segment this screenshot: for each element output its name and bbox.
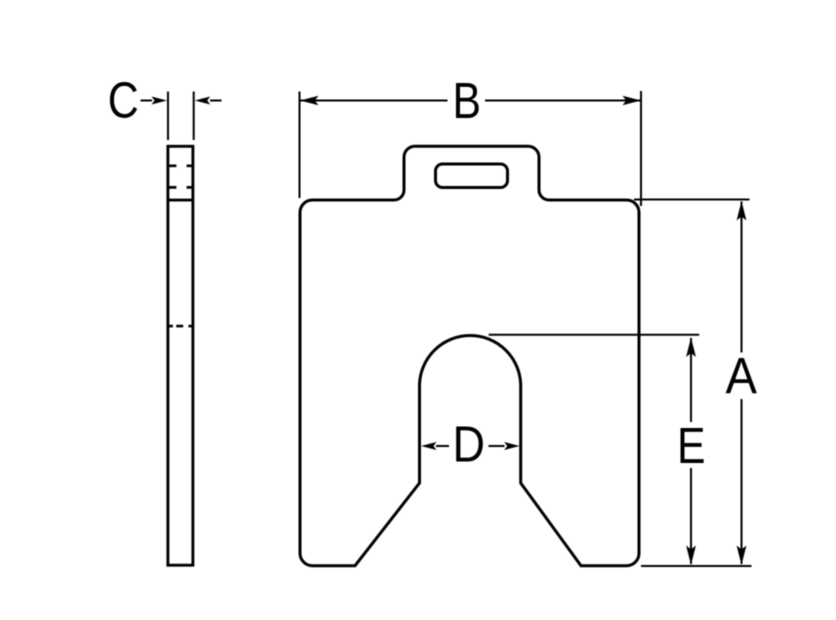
dimension E top extension line (from slot top) [489,334,700,336]
dimension B left arrowhead [300,96,319,106]
dimension D left arrowhead [421,442,437,450]
side view hidden line: tab slot bottom [168,186,192,189]
front view shim plate outline with tab and bottom slot [300,146,639,566]
dimension B line left segment [301,100,448,102]
dimension B right arrowhead [623,96,642,106]
side view tab base line [168,199,193,202]
dimension E up arrowhead [686,338,696,358]
svg-text:D: D [452,416,485,473]
dimension D right arrowhead [504,442,520,450]
dimension C right extension line [193,92,195,141]
dimension E line lower segment [690,468,692,564]
svg-text:C: C [108,72,139,129]
dimension B line right segment [485,100,641,102]
dimension A line lower segment [741,399,743,564]
dimension B right extension line [640,91,642,206]
svg-text:B: B [453,72,482,129]
dimension A bottom extension line [641,565,752,567]
dimension C left arrow (points right) [141,100,153,102]
dimension B left extension line [299,92,301,199]
dimension A down arrowhead [737,546,747,566]
svg-text:A: A [726,347,758,404]
dimension D line left segment [436,445,449,447]
dimension A up arrowhead [737,201,747,221]
side view shim outline [168,146,193,565]
dimension A line upper segment [741,202,743,353]
svg-text:E: E [677,417,706,474]
dimension D line right segment [489,445,505,447]
dimension C right arrow (points left) [210,100,222,102]
dimension E line upper segment [690,338,692,422]
tab slot (hanger hole) [436,164,508,188]
dimension E down arrowhead [686,546,696,566]
side view hidden line: tab slot top [168,164,192,167]
dimension A top extension line [634,199,750,201]
side view hidden line: slot top [169,325,193,328]
dimension C left extension line [167,92,169,141]
